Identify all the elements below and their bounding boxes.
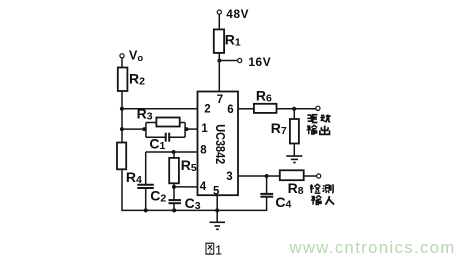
wire junction to 16V terminal	[219, 60, 237, 62]
svg-text:1: 1	[201, 123, 208, 135]
svg-text:R6: R6	[256, 88, 272, 105]
resistor R7	[290, 119, 299, 144]
wire R6 to drive terminal	[277, 108, 316, 110]
wire R4 to bottom rail	[121, 169, 123, 211]
wire pin8 to R5	[173, 152, 175, 158]
wire pin 8	[146, 151, 198, 153]
node R3 branch	[120, 127, 124, 131]
svg-text:R8: R8	[288, 180, 304, 197]
node C3 on rail	[172, 208, 176, 212]
svg-text:www.cntronics.com: www.cntronics.com	[289, 238, 456, 257]
terminal drive output	[316, 106, 320, 110]
node pin5 on rail	[215, 208, 219, 212]
svg-text:7: 7	[217, 94, 223, 106]
IC U1 UC3842 box	[198, 92, 239, 196]
wire parallel loop left bar	[145, 123, 147, 138]
svg-text:16V: 16V	[248, 55, 271, 69]
wire node to C3	[173, 187, 175, 200]
label detect input 入	[326, 196, 335, 205]
node R5 bottom	[172, 185, 176, 189]
svg-text:48V: 48V	[226, 7, 249, 21]
wire rail to R3/C1 left node	[122, 128, 146, 130]
wire pin8 down to C2	[145, 152, 147, 185]
resistor R3	[156, 118, 179, 127]
wire C2 to bottom rail	[145, 188, 147, 210]
ground at R7	[286, 156, 302, 162]
wire pin 4	[174, 186, 198, 188]
wire R7 to ground	[293, 144, 295, 157]
resistor R8	[280, 170, 304, 180]
svg-text:R4: R4	[126, 169, 142, 186]
node left of R3/C1	[142, 127, 146, 131]
svg-text:6: 6	[227, 104, 233, 116]
node C4 top	[265, 174, 269, 178]
label drive output 出	[320, 126, 330, 135]
svg-text:Vo: Vo	[129, 49, 143, 65]
node C2 on rail	[144, 208, 148, 212]
svg-text:2: 2	[204, 104, 210, 116]
capacitor C3	[169, 199, 182, 201]
label drive output 输	[307, 125, 317, 134]
capacitor C4	[260, 193, 273, 195]
wire R1 to pin 7	[218, 53, 220, 92]
svg-text:R7: R7	[271, 120, 287, 137]
node R7 top	[292, 107, 296, 111]
wire C1 to right bar	[169, 136, 185, 138]
svg-text:R5: R5	[181, 157, 197, 174]
wire pin 2	[122, 108, 198, 110]
wire R5 to pin4 node	[173, 183, 175, 187]
wire bottom branch to C1	[146, 136, 166, 138]
svg-text:UC3842: UC3842	[213, 124, 227, 164]
terminal 16V	[238, 58, 242, 62]
capacitor C2	[137, 184, 154, 186]
node right of R3/C1	[184, 127, 188, 131]
resistor R6	[254, 104, 277, 113]
svg-text:C3: C3	[185, 195, 201, 212]
wire top branch to R3	[146, 122, 157, 124]
resistor R2	[118, 68, 128, 92]
svg-text:C2: C2	[150, 188, 166, 205]
wire R2 to R4 (left rail)	[121, 91, 123, 143]
wire 48V terminal to R1	[218, 14, 220, 29]
wire C4 to bottom rail	[266, 197, 268, 211]
label detect input 检	[310, 184, 321, 193]
wire node down to C4	[266, 176, 268, 194]
svg-text:R2: R2	[129, 71, 145, 88]
svg-text:8: 8	[200, 145, 207, 157]
wire bottom rail	[121, 209, 266, 211]
label detect input 测	[323, 184, 333, 193]
wire Vo to R2	[121, 58, 123, 68]
svg-text:3: 3	[226, 171, 232, 183]
terminal 48V	[217, 10, 221, 14]
node pin2 branch	[120, 107, 124, 111]
svg-text:C4: C4	[275, 194, 291, 211]
wire R3 to right bar	[180, 122, 185, 124]
wire parallel loop right bar	[184, 123, 186, 138]
ground at pin 5	[210, 222, 226, 229]
label drive output 驱	[307, 115, 317, 123]
resistor R1	[214, 29, 224, 53]
wire pin 3 to R8	[238, 175, 280, 177]
wire pin 6 to R6	[238, 108, 254, 110]
svg-text:1: 1	[215, 243, 222, 258]
wire to pin 1	[185, 128, 197, 130]
wire pin 5 down	[216, 195, 218, 222]
wire node to R7	[293, 109, 295, 119]
node 16V junction	[217, 59, 221, 63]
resistor R5	[169, 158, 179, 183]
terminal Vo	[120, 54, 124, 58]
svg-text:R1: R1	[225, 32, 241, 49]
node R5 top	[172, 150, 176, 154]
svg-text:4: 4	[200, 181, 207, 193]
wire C3 to bottom rail	[173, 203, 175, 210]
svg-text:5: 5	[213, 186, 220, 198]
label detect input 输	[311, 196, 321, 205]
caption figure 图 glyph	[206, 243, 214, 254]
capacitor C1	[165, 133, 167, 142]
label drive output 动	[320, 114, 330, 122]
resistor R4	[117, 143, 126, 170]
terminal detect input	[317, 174, 321, 178]
wire R8 to detect terminal	[304, 175, 317, 177]
